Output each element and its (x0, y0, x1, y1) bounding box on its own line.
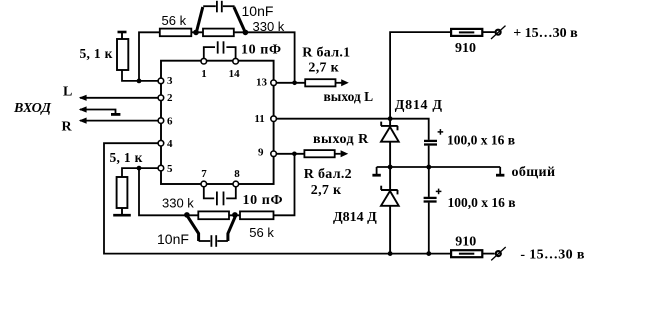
svg-text:1: 1 (201, 68, 207, 80)
ground bar input shield (111, 113, 120, 116)
junction node B (137, 166, 142, 171)
svg-text:7: 7 (201, 168, 207, 180)
svg-text:2,7 к: 2,7 к (308, 61, 339, 76)
junction minus rail zener (388, 251, 393, 256)
svg-text:100,0 x 16 в: 100,0 x 16 в (447, 133, 515, 148)
svg-text:4: 4 (167, 138, 173, 150)
svg-text:6: 6 (167, 116, 173, 128)
resistor R8 R bal.2 2,7k (304, 150, 334, 157)
wire pin 4 left rail and bottom rail (104, 143, 452, 253)
zener diode D2 D814D (381, 167, 399, 254)
svg-text:910: 910 (455, 235, 476, 250)
wire pin 11 to C5 (274, 119, 429, 140)
svg-text:10nF: 10nF (242, 3, 274, 19)
capacitor C6 100,0x16V bottom (424, 167, 442, 254)
svg-text:2: 2 (167, 92, 173, 104)
wire top feedback rail node A to pin 13 (139, 32, 295, 83)
resistor R10 910 bottom (451, 250, 495, 257)
zener diode D1 D814D (381, 119, 399, 167)
resistor R7 R bal.1 2,7k (305, 79, 335, 86)
junction plus rail pin 11 (388, 116, 393, 121)
svg-text:5, 1 к: 5, 1 к (110, 150, 143, 165)
junction top chain right (243, 30, 249, 36)
svg-text:10 пФ: 10 пФ (243, 193, 284, 208)
arrowhead output R (341, 150, 349, 157)
wire pin 3 to R1 (122, 70, 161, 81)
ground symbol right (496, 167, 504, 175)
IC U1 pin circles (158, 58, 276, 186)
wire pin 9 to R8 (274, 153, 341, 155)
junction bottom chain right (232, 212, 238, 218)
resistor R1 5,1k top (117, 32, 128, 70)
svg-text:9: 9 (258, 147, 264, 159)
svg-text:ВХОД: ВХОД (13, 101, 51, 116)
capacitor C1 10nF top (203, 1, 234, 13)
wire input R to pin 6 (80, 120, 161, 122)
terminal -15..30V (491, 247, 506, 260)
wire C1 diagonal left (197, 7, 203, 32)
wire input L to pin 2 (80, 97, 161, 99)
svg-text:- 15…30 в: - 15…30 в (520, 248, 584, 263)
resistor R4 5,1k bottom (113, 177, 131, 215)
svg-text:56 k: 56 k (162, 13, 187, 28)
wire pin 13 to R7 (274, 82, 342, 84)
arrowhead input R (79, 118, 87, 124)
svg-text:100,0 x 16 в: 100,0 x 16 в (448, 195, 516, 210)
svg-text:Д814 Д: Д814 Д (395, 98, 443, 113)
junction ground zener (388, 165, 393, 170)
junction pin 9 node (292, 152, 297, 157)
wire positive rail (390, 32, 495, 119)
svg-text:3: 3 (167, 75, 173, 87)
svg-text:910: 910 (455, 41, 476, 56)
resistor R3 330k top (203, 29, 234, 37)
wire input shield (80, 110, 116, 114)
resistor R2 56k top (160, 29, 192, 37)
wire bottom feedback rail node B to pin 9 (139, 154, 295, 216)
wire C3 diagonal right (228, 216, 236, 242)
svg-text:14: 14 (229, 68, 241, 80)
wire ground line (377, 166, 501, 168)
wire C1 diagonal right (234, 7, 245, 32)
junction top chain left (193, 30, 199, 36)
junction bottom chain left (184, 212, 190, 218)
resistor R9 910 top (451, 29, 482, 36)
capacitor C3 10nF bottom (199, 235, 228, 247)
svg-text:11: 11 (254, 113, 264, 125)
junction minus rail capacitor (426, 251, 431, 256)
IC U1 body (161, 61, 274, 184)
svg-text:+ 15…30 в: + 15…30 в (513, 26, 578, 41)
capacitor C4 10pF bottom with stubs to pins 7,8 (204, 186, 236, 205)
junction node A (137, 79, 142, 84)
wire pin 5 to R4 (122, 168, 161, 177)
svg-text:выход R: выход R (313, 132, 369, 147)
svg-text:R: R (62, 120, 73, 135)
svg-text:выход L: выход L (324, 89, 374, 104)
capacitor C5 100,0x16V top (424, 129, 443, 167)
svg-text:8: 8 (234, 168, 240, 180)
arrowhead input L (79, 95, 87, 101)
svg-text:общий: общий (512, 165, 556, 180)
junction ground capacitor (426, 165, 431, 170)
svg-text:10nF: 10nF (157, 231, 189, 247)
junction pin 13 node (292, 81, 297, 86)
svg-text:5: 5 (167, 163, 173, 175)
ground symbol left (372, 167, 380, 175)
svg-text:R бал.1: R бал.1 (302, 46, 350, 61)
wire C3 diagonal left (187, 216, 199, 242)
arrowhead input shield (79, 106, 87, 112)
svg-text:56 k: 56 k (249, 225, 274, 240)
resistor R5 330k bottom (198, 211, 229, 219)
svg-text:R бал.2: R бал.2 (304, 167, 352, 182)
svg-text:L: L (63, 85, 72, 100)
terminal +15..30V (491, 26, 506, 39)
svg-text:10 пФ: 10 пФ (241, 43, 282, 58)
svg-text:Д814 Д: Д814 Д (333, 210, 377, 225)
svg-text:5, 1 к: 5, 1 к (80, 46, 113, 61)
svg-text:13: 13 (256, 77, 268, 89)
svg-text:330 k: 330 k (253, 19, 285, 34)
svg-text:2,7 к: 2,7 к (311, 183, 342, 198)
arrowhead output L (341, 79, 349, 86)
resistor R6 56k bottom (240, 211, 274, 219)
svg-text:330 k: 330 k (162, 195, 194, 210)
capacitor C2 10pF top with stubs to pins 1,14 (204, 41, 236, 58)
